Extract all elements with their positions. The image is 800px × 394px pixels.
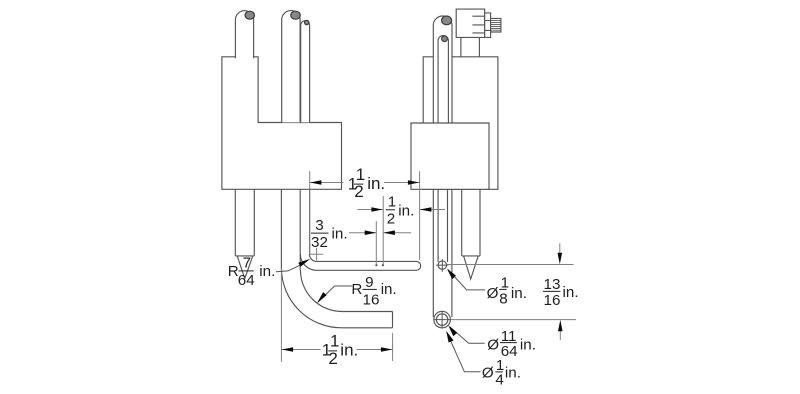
13/16 top line — [447, 264, 574, 266]
svg-text:Ø: Ø — [487, 285, 499, 302]
arrow 1-1/2 top left — [310, 180, 322, 185]
svg-text:3: 3 — [315, 217, 323, 234]
bar 1/2 mid dim — [386, 209, 395, 211]
svg-text:16: 16 — [363, 291, 380, 308]
svg-text:in.: in. — [563, 284, 579, 301]
flange dividers — [485, 21, 491, 31]
small bend inner arc — [309, 254, 316, 261]
dim line 1-1/2 bottom — [282, 349, 393, 351]
extension line B (x=383.2) — [382, 196, 384, 265]
svg-text:in.: in. — [511, 285, 527, 302]
bar 13/16 — [543, 290, 560, 292]
svg-text:7: 7 — [243, 254, 251, 271]
arrow 1-1/2 bottom left — [282, 347, 294, 352]
flange — [485, 13, 491, 38]
arrow 1/2 right (points left) — [420, 207, 432, 212]
svg-text:in.: in. — [398, 203, 414, 220]
svg-text:8: 8 — [499, 291, 507, 308]
svg-text:4: 4 — [495, 372, 503, 389]
ball in inner tube (side view) — [442, 36, 448, 42]
dim line 3/32 left tail — [349, 232, 376, 234]
back plate — [423, 57, 498, 190]
small hole circle — [438, 261, 446, 269]
dim line 1-1/2 top right tail — [384, 182, 419, 184]
thin horizontal tube — [317, 261, 421, 270]
extension line below tube end right — [392, 333, 394, 361]
extension line at thin tube end — [419, 171, 421, 260]
left body L-block — [222, 57, 342, 190]
ball in outer tube (side view) — [442, 16, 452, 25]
outer tube (side) — [433, 16, 452, 123]
large hole outer circle — [434, 311, 451, 328]
large hole inner circle — [436, 314, 448, 326]
bar 3/32 — [311, 232, 329, 234]
small tube right wall below block — [309, 189, 311, 254]
small bend outer arc — [300, 254, 316, 270]
tube T3 (small tube) upper — [301, 21, 310, 123]
head — [456, 9, 485, 37]
knurled knob — [491, 18, 501, 32]
center mark of small bend — [310, 248, 323, 261]
pin P1 below block — [235, 189, 254, 278]
svg-text:2: 2 — [354, 182, 363, 201]
arrow 3/32 left (points right) — [365, 230, 377, 235]
svg-text:in.: in. — [340, 341, 358, 360]
svg-text:in.: in. — [381, 281, 397, 298]
inner tube (side) — [438, 36, 448, 123]
bar 7/64 — [239, 270, 254, 272]
dim line 1/2 right tail — [420, 209, 445, 211]
arrow R7/64 (points up-right) — [298, 259, 310, 267]
bar 9/16 — [363, 288, 377, 290]
head slot lines — [472, 16, 484, 33]
svg-text:in.: in. — [505, 364, 521, 381]
dot on line B — [382, 264, 384, 266]
main block — [411, 123, 489, 189]
svg-text:64: 64 — [238, 272, 255, 289]
inner tube walls below block — [438, 189, 447, 262]
arrow 1/2 left (points right) — [371, 207, 383, 212]
neck — [461, 37, 480, 56]
extension line below bend left — [280, 268, 282, 362]
large bend inner arc — [300, 270, 342, 312]
13/16 bottom arrow stem — [559, 331, 561, 340]
svg-text:13: 13 — [544, 276, 561, 293]
leader dia 1/8 — [448, 270, 485, 290]
extension line at small tube right wall — [309, 171, 311, 254]
svg-text:9: 9 — [365, 274, 373, 291]
13/16 top arrow stem — [559, 243, 561, 253]
svg-text:32: 32 — [311, 234, 328, 251]
arrow 1-1/2 bottom right — [381, 347, 393, 352]
svg-text:1: 1 — [388, 194, 396, 211]
dim line 3/32 right tail — [384, 232, 411, 234]
svg-text:16: 16 — [544, 292, 561, 309]
svg-text:Ø: Ø — [487, 336, 499, 353]
extension line A (x=376.3) — [375, 221, 377, 265]
arrow dia 1/8 (points up-left) — [447, 269, 456, 280]
svg-text:in.: in. — [332, 226, 348, 243]
leader R9/16 — [318, 286, 352, 302]
outer tube walls below block — [433, 189, 452, 317]
svg-text:1: 1 — [330, 331, 339, 350]
leader R7/64 — [276, 265, 300, 272]
bar 1/4 — [495, 371, 503, 373]
arrow 13/16 bottom (points up) — [558, 320, 563, 332]
leader dia 11/64 — [450, 327, 485, 343]
svg-text:R: R — [351, 281, 362, 298]
arrow dia 11/64 (points up-left) — [448, 326, 457, 337]
large tube left wall + bottom extension — [280, 189, 282, 267]
large bend outer arc — [281, 268, 341, 328]
svg-text:2: 2 — [387, 210, 395, 227]
dot on line A — [375, 264, 377, 266]
svg-text:in.: in. — [520, 336, 536, 353]
dim line 1-1/2 top left tail — [310, 182, 344, 184]
13/16 bottom line — [451, 319, 576, 321]
small hole crosshair — [436, 259, 448, 272]
arrow 3/32 right (points left) — [383, 230, 395, 235]
tube T1 top stub — [235, 11, 253, 59]
bar 11/64 — [500, 342, 517, 344]
ball in tube T3 — [305, 20, 309, 24]
large hole crosshair — [434, 311, 451, 328]
arrow 1-1/2 top right — [408, 180, 420, 185]
pin P2 below block — [462, 189, 480, 279]
dim line 1/2 left tail — [358, 209, 383, 211]
bar 1/8 — [499, 288, 506, 290]
leader dia 1/4 — [447, 332, 481, 372]
arrow R9/16 (points down-left) — [317, 292, 327, 303]
tube T2 (large tube) upper — [282, 11, 300, 123]
arrow 13/16 top (points down) — [558, 253, 563, 265]
svg-text:in.: in. — [259, 263, 275, 280]
ball in tube T2 — [291, 11, 300, 19]
knurl ridges — [491, 20, 501, 30]
large horizontal tube — [341, 312, 392, 328]
svg-text:Ø: Ø — [482, 364, 494, 381]
bar 1/2 top dim — [354, 183, 363, 185]
svg-text:2: 2 — [328, 349, 337, 368]
svg-text:in.: in. — [367, 174, 385, 193]
bar 1/2 bottom dim — [328, 350, 337, 352]
shared wall (T2 right / T3 left) below block — [299, 189, 301, 269]
arrow dia 1/4 (points up-left steep) — [446, 331, 453, 343]
ball in tube T1 — [245, 11, 254, 19]
